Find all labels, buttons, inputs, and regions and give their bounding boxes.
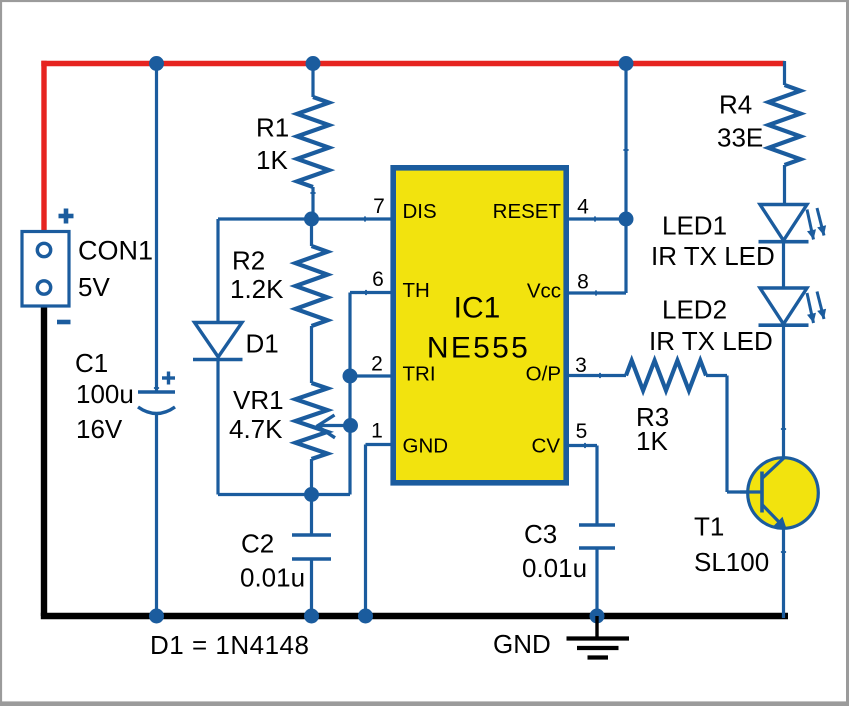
pin number 6: [372, 268, 384, 291]
capacitor C2: [292, 495, 331, 619]
svg-text:CV: CV: [532, 435, 561, 458]
capacitor C1: [138, 372, 175, 414]
svg-text:CON1: CON1: [78, 236, 153, 266]
node junction R1/R2/DIS: [304, 212, 319, 227]
node junction gnd/pin1: [358, 609, 373, 624]
pin name Vcc: [527, 280, 561, 303]
svg-text:LED1: LED1: [662, 211, 727, 241]
svg-text:R2: R2: [232, 246, 265, 276]
pin name TH: [403, 279, 430, 302]
wire emitter to ground: [782, 526, 785, 618]
svg-text:1K: 1K: [256, 145, 288, 175]
wire ground bus (black): [41, 306, 788, 616]
svg-text:1: 1: [371, 420, 383, 443]
label R2: [232, 246, 265, 276]
node junction rail/C1: [149, 56, 164, 71]
wire Vcc drop: [569, 62, 626, 293]
LED LED1: [759, 205, 827, 242]
label 0.01u C2: [240, 563, 305, 593]
svg-text:GND: GND: [493, 629, 551, 659]
diode D1: [193, 323, 243, 360]
svg-text:6: 6: [372, 268, 384, 291]
transistor T1: [740, 457, 818, 529]
label 1K R3: [636, 426, 668, 456]
svg-text:4.7K: 4.7K: [229, 414, 283, 444]
wire pin 4 RESET: [569, 217, 626, 220]
label 100u: [76, 379, 134, 409]
svg-text:D1: D1: [246, 329, 279, 359]
pin name RESET: [493, 200, 562, 223]
node junction wiper: [343, 418, 358, 433]
svg-text:GND: GND: [403, 435, 449, 458]
pin number 1: [371, 420, 383, 443]
wire pin 2 TRI: [350, 374, 391, 377]
minus terminal marker: [57, 320, 71, 325]
plus terminal marker: [59, 209, 74, 224]
label SL100: [694, 547, 769, 577]
label R1: [256, 113, 289, 143]
svg-text:5V: 5V: [78, 272, 110, 302]
wire +5V rail (red): [41, 61, 784, 232]
svg-text:T1: T1: [694, 512, 724, 542]
svg-text:R4: R4: [719, 90, 752, 120]
pin name CV: [532, 435, 561, 458]
svg-text:D1 = 1N4148: D1 = 1N4148: [150, 630, 309, 660]
pin number 8: [577, 271, 589, 294]
pin number 3: [575, 354, 587, 377]
svg-text:1K: 1K: [636, 426, 668, 456]
pin name DIS: [403, 200, 437, 223]
svg-text:C1: C1: [75, 348, 108, 378]
connector CON1: [22, 232, 69, 307]
wire pin 7 DIS: [218, 217, 391, 220]
pin name GND: [403, 435, 449, 458]
op-amp IC1 NE555 body: [393, 168, 566, 483]
label R3: [636, 402, 669, 432]
svg-text:DIS: DIS: [403, 200, 437, 223]
node junction TRI: [343, 369, 358, 384]
svg-text:C3: C3: [524, 519, 557, 549]
resistor R1: [297, 62, 329, 219]
note D1 = 1N4148: [150, 630, 309, 660]
pin number 4: [577, 196, 589, 219]
node junction VR1/C2: [304, 487, 319, 502]
svg-text:RESET: RESET: [493, 200, 562, 223]
label R4: [719, 90, 752, 120]
wire LED2-collector: [782, 325, 785, 458]
pin name TRI: [403, 363, 436, 386]
svg-text:TH: TH: [403, 279, 430, 302]
label 0.01u C3: [522, 553, 587, 583]
svg-text:SL100: SL100: [694, 547, 769, 577]
label 33E: [717, 123, 763, 153]
svg-text:0.01u: 0.01u: [522, 553, 587, 583]
label 5V: [78, 272, 110, 302]
svg-text:16V: 16V: [76, 414, 123, 444]
node junction rail/R1: [306, 56, 321, 71]
label 4.7K: [229, 414, 283, 444]
svg-text:3: 3: [575, 354, 587, 377]
label C2: [241, 529, 274, 559]
node junction rail/Vcc: [619, 56, 634, 71]
resistor R2: [296, 219, 328, 383]
ground symbol: [567, 616, 630, 658]
wire D1 branch: [218, 219, 350, 495]
label C3: [524, 519, 557, 549]
pin connection ticks: [154, 150, 786, 552]
label C1: [75, 348, 108, 378]
svg-text:R1: R1: [256, 113, 289, 143]
wire pin 6 TH: [350, 293, 391, 495]
label IC1: [454, 292, 501, 325]
label LED2: [662, 295, 727, 325]
svg-text:2: 2: [371, 353, 383, 376]
svg-text:33E: 33E: [717, 123, 763, 153]
svg-text:VR1: VR1: [233, 385, 284, 415]
label 16V: [76, 414, 123, 444]
label CON1: [78, 236, 153, 266]
node junction gnd/C1: [149, 609, 164, 624]
svg-text:Vcc: Vcc: [527, 280, 561, 303]
wiper arrow VR1: [317, 415, 351, 438]
label IR TX LED 1: [651, 241, 775, 271]
potentiometer VR1: [296, 383, 328, 495]
svg-text:IR TX LED: IR TX LED: [649, 326, 773, 356]
resistor R4: [769, 61, 801, 205]
svg-text:LED2: LED2: [662, 295, 727, 325]
label VR1: [233, 385, 284, 415]
svg-text:5: 5: [576, 420, 588, 443]
svg-text:IC1: IC1: [454, 292, 501, 325]
svg-text:O/P: O/P: [526, 363, 561, 386]
svg-text:C2: C2: [241, 529, 274, 559]
label 1.2K: [230, 274, 284, 304]
svg-text:7: 7: [373, 195, 385, 218]
svg-text:8: 8: [577, 271, 589, 294]
svg-text:4: 4: [577, 196, 589, 219]
svg-text:100u: 100u: [76, 379, 134, 409]
node junction gnd/C2: [304, 609, 319, 624]
svg-text:NE555: NE555: [427, 332, 530, 365]
node junction gnd/C3: [590, 609, 605, 624]
svg-text:TRI: TRI: [403, 363, 436, 386]
node junction RESET/Vcc: [619, 212, 634, 227]
pin name O/P: [526, 363, 561, 386]
wire LED1-LED2: [782, 242, 785, 288]
capacitor C3: [579, 525, 615, 616]
svg-text:1.2K: 1.2K: [230, 274, 284, 304]
pin number 7: [373, 195, 385, 218]
pin number 5: [576, 420, 588, 443]
label NE555: [427, 332, 530, 365]
label GND: [493, 629, 551, 659]
LED LED2: [759, 288, 827, 325]
wire pin 3 O/P: [569, 374, 626, 377]
resistor R3: [626, 361, 706, 391]
svg-text:IR TX LED: IR TX LED: [651, 241, 775, 271]
pin number 2: [371, 353, 383, 376]
label D1: [246, 329, 279, 359]
label T1: [694, 512, 724, 542]
wire pin 5 CV: [569, 446, 597, 526]
wire R3 to base: [706, 376, 761, 493]
label 1K: [256, 145, 288, 175]
wire C1 branch: [155, 61, 158, 618]
wire pin 1 GND: [366, 445, 391, 619]
label LED1: [662, 211, 727, 241]
svg-text:0.01u: 0.01u: [240, 563, 305, 593]
label IR TX LED 2: [649, 326, 773, 356]
